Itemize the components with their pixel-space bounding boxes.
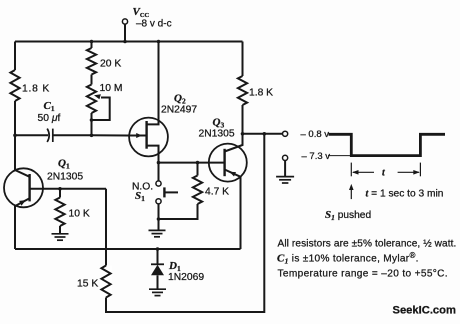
svg-text:– 0.8 v: – 0.8 v: [301, 129, 330, 140]
svg-text:50 μf: 50 μf: [38, 113, 61, 124]
resistor R 10M rheostat: [87, 85, 96, 114]
svg-text:Q1: Q1: [58, 158, 70, 171]
wire left rail to Q1 collector: [14, 135, 16, 170]
wire between 20K and 10M: [91, 75, 93, 85]
arrow S1 pushed: [350, 187, 352, 200]
wire emitter bus (Q1 emitter to Q3 emitter): [15, 248, 241, 250]
resistor R 1.8K right: [242, 42, 244, 77]
waveform output pulse: [329, 134, 446, 155]
svg-text:15 K: 15 K: [77, 279, 98, 290]
svg-text:1.8 K: 1.8 K: [22, 84, 50, 95]
svg-text:C1: C1: [44, 100, 55, 113]
svg-text:10 K: 10 K: [69, 209, 90, 220]
resistor R 1.8K left: [10, 70, 19, 101]
wire Q2 source to Q3 base: [159, 162, 225, 164]
node 10M bottom junction: [90, 134, 94, 138]
transistor Q3 2N1305: [209, 144, 247, 182]
svg-text:– 7.3 v: – 7.3 v: [302, 151, 331, 162]
dimension arrows t: [353, 171, 374, 173]
switch S1 N.O. pushbutton: [158, 163, 160, 181]
svg-text:4.7 K: 4.7 K: [205, 187, 229, 198]
ground output: [276, 176, 294, 178]
svg-text:SeekIC.com: SeekIC.com: [393, 305, 456, 317]
node D1 junction: [156, 247, 160, 251]
op-amp: none; transistor Q2 JFET 2N2497: [129, 118, 168, 157]
node Vcc junction: [123, 40, 127, 44]
svg-text:2N2497: 2N2497: [161, 105, 197, 116]
capacitor C1 50uf: [15, 134, 48, 136]
node cap-left junction: [13, 134, 17, 138]
svg-text:1N2069: 1N2069: [168, 272, 204, 283]
svg-text:All resistors are ±5% toleranc: All resistors are ±5% tolerance, ½ watt.: [278, 239, 457, 250]
svg-text:S1 pushed: S1 pushed: [325, 209, 371, 222]
wire left rail to cap node: [14, 101, 16, 135]
wire top supply rail: [15, 41, 243, 43]
ground under 10K: [52, 233, 69, 235]
svg-text:2N1305: 2N1305: [47, 172, 83, 183]
dimension ticks: [350, 163, 352, 177]
svg-text:C1 is ±10% tolerance, Mylar®.: C1 is ±10% tolerance, Mylar®.: [277, 251, 419, 266]
resistor R 20K: [87, 48, 96, 75]
terminal Vcc: [122, 19, 127, 24]
wire Q1 base: [30, 188, 106, 190]
terminal output: [283, 131, 288, 136]
node 10K top junction: [58, 187, 62, 191]
node Q2 source junction: [157, 161, 161, 165]
ground under S1: [149, 229, 166, 231]
svg-text:2N1305: 2N1305: [199, 129, 235, 140]
terminal output return: [283, 155, 288, 160]
node S1/4.7K junction: [157, 217, 161, 221]
diode D1 1N2069: [157, 249, 159, 264]
node output junction Q3 collector: [241, 132, 245, 136]
ground under D1: [149, 288, 166, 290]
resistor R 10K: [59, 189, 61, 198]
wire output: [243, 133, 283, 135]
resistor R 4.7K: [197, 163, 199, 176]
wire left rail upper: [14, 42, 16, 71]
svg-text:1.8 K: 1.8 K: [249, 88, 273, 99]
wire 10M bottom to cap node: [91, 113, 93, 135]
wire feedback: output down, bottom, up through 15K: [106, 134, 264, 312]
svg-text:10 M: 10 M: [100, 83, 123, 94]
node 10M wiper junction: [90, 118, 94, 122]
wire 10M wiper: [92, 98, 110, 121]
node 4.7K top junction: [196, 161, 200, 165]
svg-text:VCC: VCC: [133, 6, 150, 19]
svg-text:Temperature range = –20 to +55: Temperature range = –20 to +55°C.: [278, 269, 448, 280]
transistor Q1 2N1305: [4, 168, 43, 207]
svg-text:t: t: [382, 168, 386, 179]
svg-text:20 K: 20 K: [100, 59, 121, 70]
wire 20K branch from rail: [90, 40, 94, 44]
node feedback tap: [263, 132, 267, 136]
wire leader to low level: [328, 155, 352, 157]
svg-text:t = 1 sec to 3 min: t = 1 sec to 3 min: [366, 189, 444, 200]
wire cap node to Q2 gate: [92, 134, 137, 136]
resistor R 15K (drawn on feedback riser): [100, 266, 112, 298]
svg-text:–8 v d-c: –8 v d-c: [136, 19, 172, 30]
